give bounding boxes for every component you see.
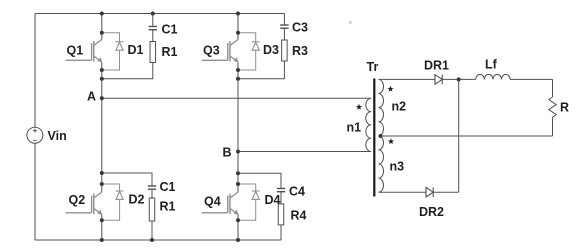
svg-text:R4: R4 — [291, 209, 307, 223]
svg-text:Q4: Q4 — [204, 195, 221, 209]
svg-text:D4: D4 — [265, 193, 281, 207]
svg-text:n1: n1 — [347, 121, 362, 135]
svg-text:Vin: Vin — [48, 129, 67, 143]
svg-text:R1: R1 — [162, 45, 178, 59]
svg-text:C1: C1 — [160, 180, 176, 194]
svg-text:Q3: Q3 — [203, 44, 220, 58]
svg-text:R1: R1 — [160, 200, 176, 214]
svg-text:R3: R3 — [292, 44, 308, 58]
svg-text:D1: D1 — [128, 43, 144, 57]
svg-text:D3: D3 — [263, 43, 279, 57]
svg-text:C1: C1 — [162, 23, 178, 37]
svg-text:Lf: Lf — [485, 58, 498, 72]
svg-text:R: R — [560, 101, 569, 115]
svg-text:n2: n2 — [392, 100, 407, 114]
svg-text:n3: n3 — [390, 160, 405, 174]
svg-text:DR1: DR1 — [424, 59, 449, 73]
svg-text:DR2: DR2 — [419, 205, 444, 219]
svg-text:Tr: Tr — [367, 60, 379, 74]
svg-text:Q2: Q2 — [69, 193, 86, 207]
svg-text:B: B — [223, 146, 232, 160]
svg-text:A: A — [87, 90, 96, 104]
svg-text:C3: C3 — [292, 21, 308, 35]
svg-text:D2: D2 — [129, 193, 145, 207]
svg-text:Q1: Q1 — [67, 44, 84, 58]
svg-text:C4: C4 — [289, 185, 305, 199]
